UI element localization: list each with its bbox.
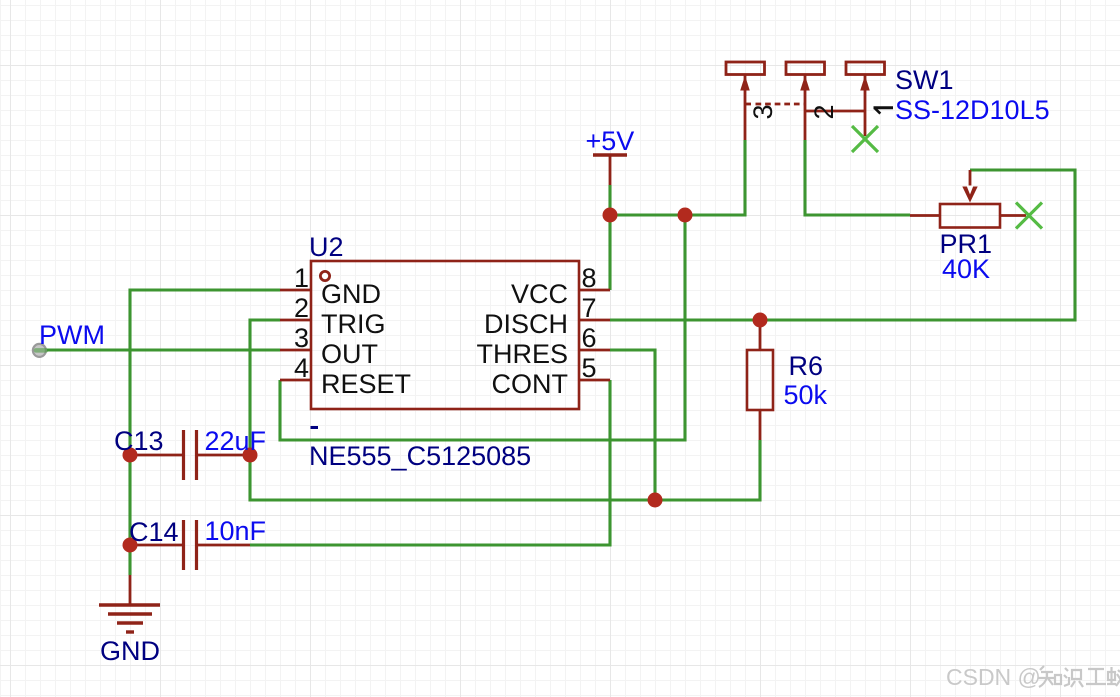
svg-text:VCC: VCC [511, 279, 568, 309]
svg-text:2: 2 [809, 104, 839, 119]
svg-text:RESET: RESET [321, 369, 411, 399]
svg-text:OUT: OUT [321, 339, 378, 369]
svg-text:GND: GND [100, 636, 160, 666]
svg-text:40K: 40K [942, 254, 990, 284]
svg-text:5: 5 [582, 353, 597, 383]
svg-text:+5V: +5V [586, 126, 635, 156]
svg-text:DISCH: DISCH [484, 309, 568, 339]
svg-text:C13: C13 [114, 426, 164, 456]
svg-text:U2: U2 [309, 232, 344, 262]
svg-text:TRIG: TRIG [321, 309, 386, 339]
svg-text:CONT: CONT [492, 369, 569, 399]
svg-text:3: 3 [294, 323, 309, 353]
svg-text:4: 4 [294, 353, 309, 383]
svg-text:R6: R6 [789, 351, 824, 381]
svg-text:8: 8 [582, 263, 597, 293]
svg-text:3: 3 [748, 104, 778, 119]
svg-text:GND: GND [321, 279, 381, 309]
svg-text:10nF: 10nF [205, 516, 267, 546]
svg-text:1: 1 [294, 263, 309, 293]
svg-text:SW1: SW1 [895, 65, 954, 95]
svg-text:22uF: 22uF [205, 426, 267, 456]
svg-text:PWM: PWM [39, 320, 105, 350]
svg-text:THRES: THRES [476, 339, 568, 369]
svg-text:SS-12D10L5: SS-12D10L5 [895, 95, 1050, 125]
svg-text:50k: 50k [784, 380, 828, 410]
svg-text:2: 2 [294, 293, 309, 323]
svg-text:6: 6 [582, 323, 597, 353]
svg-text:CSDN @: CSDN @ [946, 664, 1041, 690]
svg-text:7: 7 [582, 293, 597, 323]
svg-text:NE555_C5125085: NE555_C5125085 [309, 441, 531, 471]
svg-text:C14: C14 [129, 517, 179, 547]
